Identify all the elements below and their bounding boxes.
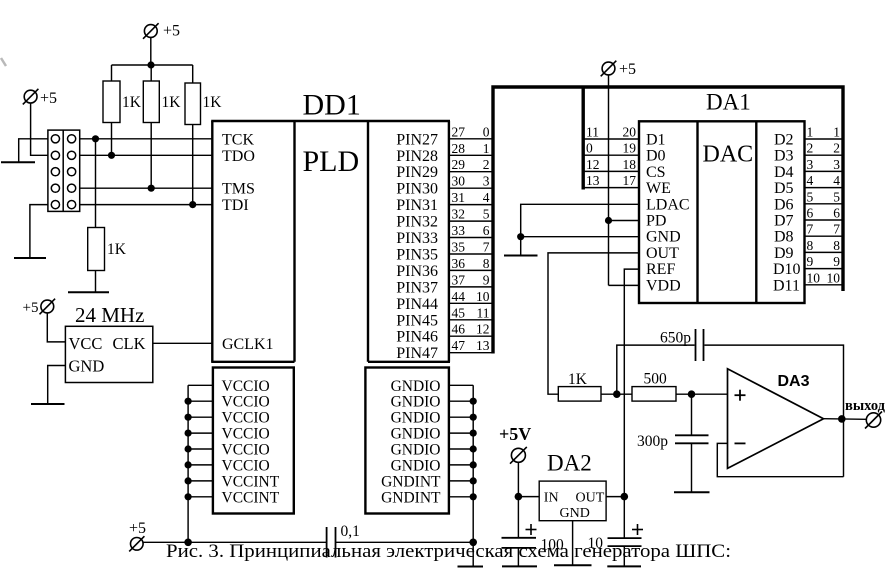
power terminal +5 (oscillator) xyxy=(23,299,56,316)
wire pulldown bottom xyxy=(95,271,97,292)
wire down to 300p xyxy=(691,394,693,435)
node R2/TMS xyxy=(148,185,155,192)
svg-text:PIN30: PIN30 xyxy=(396,181,438,198)
svg-text:+5: +5 xyxy=(619,61,636,78)
op-amp DA3 xyxy=(728,369,824,469)
svg-text:GNDIO: GNDIO xyxy=(391,410,441,427)
pins PIN27-PIN47 xyxy=(396,131,438,362)
BUS-DA1-SECTION xyxy=(493,61,843,497)
wire TMS net xyxy=(80,187,213,189)
pins D1 D0 CS WE LDAC PD GND OUT REF VDD xyxy=(646,132,690,295)
wire OUT stub xyxy=(606,496,624,498)
svg-text:TDI: TDI xyxy=(222,197,249,214)
svg-text:VCCINT: VCCINT xyxy=(222,473,280,490)
svg-text:DAC: DAC xyxy=(703,142,754,168)
svg-text:TDO: TDO xyxy=(222,148,255,165)
node R3/TDI xyxy=(189,201,196,208)
wire R6 to op-amp + input xyxy=(676,393,728,395)
svg-text:1K: 1K xyxy=(203,94,223,111)
svg-text:DA2: DA2 xyxy=(547,451,592,476)
capacitor C4 100 (polarized) xyxy=(502,524,565,554)
svg-text:10: 10 xyxy=(476,289,490,304)
wire 100 cap to ground xyxy=(517,548,519,567)
wire 10 cap to ground xyxy=(623,546,625,566)
wire R1 top stub xyxy=(111,65,113,81)
svg-text:30: 30 xyxy=(452,174,466,189)
svg-text:9: 9 xyxy=(833,254,840,269)
svg-text:+5: +5 xyxy=(129,520,146,537)
svg-text:1K: 1K xyxy=(162,94,182,111)
svg-text:35: 35 xyxy=(452,240,466,255)
svg-text:28: 28 xyxy=(452,141,466,156)
resistor R1 1K xyxy=(103,81,142,123)
node +5V/IN xyxy=(515,493,523,501)
pins D2-D11 xyxy=(773,132,801,295)
CAPTION-SECTION xyxy=(166,541,731,562)
svg-text:+5: +5 xyxy=(40,90,57,107)
wire CS stub xyxy=(583,170,639,172)
resistor R6 500 xyxy=(632,371,676,402)
svg-text:PLD: PLD xyxy=(303,145,360,178)
svg-text:47: 47 xyxy=(452,338,466,353)
svg-text:0,1: 0,1 xyxy=(341,523,360,540)
svg-text:REF: REF xyxy=(646,261,675,278)
connector X1 JTAG header xyxy=(48,130,80,211)
wire PD stub xyxy=(609,220,640,222)
svg-text:PIN28: PIN28 xyxy=(396,148,438,165)
ground (JTAG pin1) xyxy=(1,161,35,163)
svg-text:VCCIO: VCCIO xyxy=(222,410,270,427)
FILTER-SECTION xyxy=(558,329,885,492)
svg-text:DA1: DA1 xyxy=(706,90,751,115)
node R1/TDO xyxy=(108,152,115,159)
svg-text:6: 6 xyxy=(483,223,490,238)
svg-text:2: 2 xyxy=(807,141,814,156)
svg-text:PIN36: PIN36 xyxy=(396,263,438,280)
svg-text:D0: D0 xyxy=(646,148,666,165)
power terminal +5 (DA1) xyxy=(601,61,636,78)
svg-text:D4: D4 xyxy=(774,164,794,181)
DD1-SECTION xyxy=(129,89,493,567)
svg-text:PIN29: PIN29 xyxy=(396,164,438,181)
wire up to 650p xyxy=(617,345,695,394)
svg-text:37: 37 xyxy=(452,272,466,287)
pin numbers 27..47 and bus bit numbers 0..13 xyxy=(452,124,490,353)
node +input/C300p xyxy=(688,390,696,398)
capacitor C2 650p xyxy=(660,329,704,361)
ground (oscillator) xyxy=(31,403,65,405)
wire +5 down to connector row2 xyxy=(31,103,48,155)
wire R3 bottom to TDI net xyxy=(192,125,194,205)
svg-text:VCCIO: VCCIO xyxy=(222,378,270,395)
power terminal +5 (top, pull-up supply) xyxy=(143,23,180,40)
LEFT-SECTION xyxy=(1,23,222,405)
svg-text:7: 7 xyxy=(483,240,490,255)
svg-text:D2: D2 xyxy=(774,132,794,149)
svg-text:GCLK1: GCLK1 xyxy=(222,336,274,353)
svg-text:+5V: +5V xyxy=(499,424,531,444)
oscillator G1 24 MHz xyxy=(65,303,152,383)
capacitor C5 10 (polarized) xyxy=(588,524,644,552)
wire TDI net xyxy=(80,204,213,206)
svg-text:PD: PD xyxy=(646,213,666,230)
wire R2 top stub xyxy=(150,65,152,81)
bus data (thick) xyxy=(493,87,843,354)
svg-text:3: 3 xyxy=(483,174,490,189)
svg-text:TCK: TCK xyxy=(222,132,254,149)
svg-text:D9: D9 xyxy=(774,245,794,262)
wire +5 down to PD and VDD xyxy=(608,75,610,286)
wire +5 to pullup bus xyxy=(150,37,152,65)
svg-text:17: 17 xyxy=(623,173,637,188)
svg-text:11: 11 xyxy=(586,125,599,140)
wire GND stubs to right rail xyxy=(449,385,473,497)
svg-text:32: 32 xyxy=(452,207,466,222)
svg-text:2: 2 xyxy=(833,141,840,156)
node R5/R6/C650p xyxy=(613,390,621,398)
svg-text:PIN37: PIN37 xyxy=(396,279,438,296)
ground (300p) xyxy=(674,491,710,493)
svg-text:D6: D6 xyxy=(774,196,794,213)
ground (JTAG pin9) xyxy=(14,257,46,259)
svg-text:OUT: OUT xyxy=(646,245,679,262)
svg-text:+5: +5 xyxy=(163,23,180,40)
svg-text:0: 0 xyxy=(483,124,490,139)
ground (DD1 GND rail) xyxy=(458,566,484,568)
svg-text:7: 7 xyxy=(833,222,840,237)
resistor R3 1K xyxy=(185,83,222,125)
svg-text:4: 4 xyxy=(807,173,814,188)
node junction +5/bus xyxy=(147,61,154,68)
svg-text:12: 12 xyxy=(586,157,600,172)
svg-text:5: 5 xyxy=(483,207,490,222)
svg-text:45: 45 xyxy=(452,305,466,320)
wire R5 to R6 xyxy=(601,393,632,395)
svg-text:1K: 1K xyxy=(568,371,588,388)
wire op-amp output xyxy=(824,418,867,421)
svg-text:IN: IN xyxy=(544,491,559,506)
svg-text:VCCIO: VCCIO xyxy=(222,426,270,443)
svg-text:9: 9 xyxy=(807,254,814,269)
ground (10 cap) xyxy=(607,565,641,567)
svg-text:4: 4 xyxy=(483,190,490,205)
svg-text:VCCIO: VCCIO xyxy=(222,457,270,474)
svg-text:PIN44: PIN44 xyxy=(396,296,438,313)
svg-text:1K: 1K xyxy=(107,241,127,258)
wire REF down to DA2 OUT xyxy=(624,269,639,497)
svg-text:PIN47: PIN47 xyxy=(396,345,438,362)
wire LDAC to ground xyxy=(521,204,639,236)
svg-text:PIN32: PIN32 xyxy=(396,214,438,231)
svg-text:VCCIO: VCCIO xyxy=(222,394,270,411)
svg-text:2: 2 xyxy=(483,157,490,172)
svg-text:27: 27 xyxy=(452,124,466,139)
node LDAC/GND xyxy=(517,233,524,240)
svg-text:TMS: TMS xyxy=(222,181,255,198)
svg-text:+5: +5 xyxy=(23,300,39,316)
wire GND rail xyxy=(472,385,474,566)
wire connector row1 to ground xyxy=(19,139,48,163)
svg-text:6: 6 xyxy=(833,206,840,221)
svg-text:8: 8 xyxy=(833,238,840,253)
numbers bus bits 11 0 12 13 / pins 20 19 18 17 xyxy=(586,125,636,189)
svg-text:OUT: OUT xyxy=(576,491,605,506)
terminal output xyxy=(845,398,886,429)
chip DD1 PLD main box xyxy=(211,121,450,362)
wire CLK to GCLK1 xyxy=(153,342,213,344)
svg-text:D7: D7 xyxy=(774,213,794,230)
svg-text:PIN35: PIN35 xyxy=(396,247,438,264)
wire +5 to VCC pin xyxy=(47,313,65,342)
wire WE stub xyxy=(583,187,639,189)
chip DD1 VCC box xyxy=(213,368,294,514)
svg-text:PIN27: PIN27 xyxy=(396,131,438,148)
wire 650p to output xyxy=(705,345,844,477)
svg-text:CS: CS xyxy=(646,164,666,181)
regulator DA2 xyxy=(539,451,606,522)
wire OUT down to 1K xyxy=(548,253,639,394)
svg-text:1: 1 xyxy=(807,125,814,140)
svg-text:VCCIO: VCCIO xyxy=(222,442,270,459)
svg-text:36: 36 xyxy=(452,256,466,271)
svg-text:GND: GND xyxy=(646,229,681,246)
svg-text:GND: GND xyxy=(69,357,105,376)
svg-text:44: 44 xyxy=(452,289,466,304)
wire TDO net xyxy=(80,154,213,156)
svg-text:GNDIO: GNDIO xyxy=(391,426,441,443)
wire VDD stub xyxy=(609,284,640,286)
power terminal +5 (JTAG pin 3) xyxy=(23,89,57,107)
svg-text:12: 12 xyxy=(476,322,490,337)
power terminal +5V xyxy=(499,424,531,464)
wire pulldown top xyxy=(95,139,97,228)
resistor R4 1K (pull-down) xyxy=(88,228,127,271)
power terminal +5 (bottom) xyxy=(129,520,146,551)
svg-text:GNDINT: GNDINT xyxy=(381,473,441,490)
svg-text:7: 7 xyxy=(807,222,814,237)
chip DD1 GND box xyxy=(365,368,449,514)
svg-text:GNDINT: GNDINT xyxy=(381,489,441,506)
resistor R5 1K xyxy=(558,371,601,401)
svg-text:CLK: CLK xyxy=(113,334,146,353)
capacitor C3 300p xyxy=(637,433,709,450)
svg-text:LDAC: LDAC xyxy=(646,196,690,213)
wire R3 top stub xyxy=(192,65,194,83)
svg-text:46: 46 xyxy=(452,322,466,337)
svg-text:VCC: VCC xyxy=(69,334,103,353)
svg-text:D11: D11 xyxy=(773,277,800,294)
numbers pins 1-10 / bus bits 1-10 xyxy=(807,125,841,286)
wire TCK net xyxy=(80,138,213,140)
svg-text:8: 8 xyxy=(483,256,490,271)
svg-text:PIN31: PIN31 xyxy=(396,197,438,214)
wire 300p to ground xyxy=(691,443,693,491)
svg-text:5: 5 xyxy=(807,189,814,204)
svg-text:9: 9 xyxy=(483,272,490,287)
node output/feedback xyxy=(838,415,846,423)
svg-text:1K: 1K xyxy=(122,94,142,111)
svg-text:500: 500 xyxy=(644,371,668,388)
node cap/GND rail xyxy=(469,539,477,547)
resistor R2 1K xyxy=(143,81,181,123)
svg-text:8: 8 xyxy=(807,238,814,253)
svg-text:0: 0 xyxy=(586,141,593,156)
wire GND down xyxy=(520,237,522,255)
svg-text:GNDIO: GNDIO xyxy=(391,378,441,395)
wire D0 stub xyxy=(583,154,639,156)
wire D2-D11 stubs to bus xyxy=(805,139,844,285)
svg-text:GNDIO: GNDIO xyxy=(391,394,441,411)
wire IN stub xyxy=(518,496,539,498)
svg-text:GND: GND xyxy=(560,506,590,521)
wire D1 stub xyxy=(583,138,639,140)
wire connector row5 to ground xyxy=(30,205,48,258)
svg-text:3: 3 xyxy=(807,157,814,172)
svg-text:GNDIO: GNDIO xyxy=(391,457,441,474)
scan artifact top-left xyxy=(1,58,6,66)
svg-text:DA3: DA3 xyxy=(778,373,810,390)
node PD/+5 xyxy=(605,217,612,224)
svg-text:4: 4 xyxy=(833,173,840,188)
wire +5V to IN and 100 cap xyxy=(517,462,519,538)
nodes on VCC rail xyxy=(184,398,192,546)
node OUT/REF/10cap xyxy=(621,493,629,501)
svg-text:PIN33: PIN33 xyxy=(396,230,438,247)
svg-text:1: 1 xyxy=(833,125,840,140)
svg-text:1: 1 xyxy=(483,141,490,156)
svg-text:6: 6 xyxy=(807,206,814,221)
svg-text:13: 13 xyxy=(476,338,490,353)
svg-text:D8: D8 xyxy=(774,229,794,246)
svg-text:WE: WE xyxy=(646,180,671,197)
svg-text:24 MHz: 24 MHz xyxy=(75,303,144,327)
wire feedback - input xyxy=(717,443,843,476)
nodes on GND rail xyxy=(470,398,477,501)
wire DA2 GND pin down xyxy=(572,521,574,565)
wire R2 bottom to TMS net xyxy=(150,123,152,189)
svg-text:DD1: DD1 xyxy=(303,89,361,122)
svg-text:3: 3 xyxy=(833,157,840,172)
svg-text:20: 20 xyxy=(623,125,637,140)
wire pin stubs PIN27-PIN47 to bus xyxy=(449,139,493,353)
svg-text:11: 11 xyxy=(477,305,490,320)
svg-text:GNDIO: GNDIO xyxy=(391,442,441,459)
wire OUT node down to 10 cap xyxy=(623,497,625,538)
ground (100 cap) xyxy=(502,565,537,567)
ground (DA2 GND) xyxy=(554,564,592,566)
svg-text:VCCINT: VCCINT xyxy=(222,489,280,506)
node TCK/pulldown xyxy=(92,135,99,142)
svg-text:19: 19 xyxy=(623,141,637,156)
svg-text:31: 31 xyxy=(452,190,466,205)
wire GND stub xyxy=(521,236,639,238)
svg-text:D1: D1 xyxy=(646,132,666,149)
svg-text:PIN46: PIN46 xyxy=(396,329,438,346)
svg-text:300p: 300p xyxy=(637,433,668,450)
DA2-SECTION xyxy=(499,424,643,566)
svg-text:10: 10 xyxy=(827,270,841,285)
pins GNDIO x6 GNDINT x2 xyxy=(381,378,441,507)
wire oscillator GND pin xyxy=(48,366,66,404)
ground (pull-down) xyxy=(68,291,109,293)
svg-text:650p: 650p xyxy=(660,330,691,347)
svg-text:VDD: VDD xyxy=(646,277,681,294)
svg-text:33: 33 xyxy=(452,223,466,238)
svg-text:D10: D10 xyxy=(773,261,801,278)
svg-text:18: 18 xyxy=(623,157,637,172)
ground (DA1 GND) xyxy=(504,255,538,257)
svg-text:10: 10 xyxy=(807,270,821,285)
svg-text:PIN45: PIN45 xyxy=(396,312,438,329)
pins VCCIO x6 VCCINT x2 xyxy=(222,378,280,507)
capacitor C1 0,1 xyxy=(327,523,360,558)
wire VCC rail xyxy=(187,385,189,542)
chip DA1 DAC box xyxy=(639,121,805,303)
svg-text:5: 5 xyxy=(833,189,840,204)
wire +5 bottom to decoupling cap xyxy=(143,541,327,543)
wire R1 bottom to TDO net xyxy=(111,123,113,156)
svg-text:29: 29 xyxy=(452,157,466,172)
svg-text:D3: D3 xyxy=(774,148,794,165)
svg-text:13: 13 xyxy=(586,173,600,188)
svg-text:D5: D5 xyxy=(774,180,794,197)
svg-text:Рис. 3. Принципиальная электри: Рис. 3. Принципиальная электрическая схе… xyxy=(166,541,731,562)
wire cap to GND rail xyxy=(336,541,474,543)
wire pullup bus horizontal xyxy=(112,64,193,66)
svg-text:выход: выход xyxy=(845,398,886,414)
wire VCC stubs to left rail xyxy=(188,385,213,497)
